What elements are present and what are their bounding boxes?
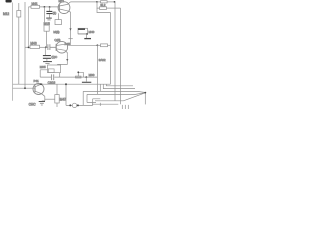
wire from node to rail — [97, 8, 111, 12]
node dot rail L3 — [28, 47, 30, 49]
connector line 1 — [95, 93, 145, 101]
rail V+ outer — [120, 8, 122, 104]
transistor Q1 — [58, 2, 70, 14]
emitter chain Q2 — [57, 54, 67, 64]
emitter tap wire — [45, 98, 55, 100]
resistor mid-right — [97, 44, 100, 46]
resistor R top1 — [97, 1, 101, 3]
node dot base Q2 — [45, 46, 47, 48]
ground — [43, 61, 52, 63]
stage2 base wire — [25, 46, 30, 48]
svg-text:M43: M43 — [30, 42, 36, 46]
rail V+ inner — [110, 13, 112, 85]
staircase wire 3 — [93, 99, 101, 106]
wire rail mid — [43, 7, 45, 25]
svg-text:M41: M41 — [32, 2, 38, 6]
fuse box inline — [76, 76, 82, 78]
collector wire top — [71, 1, 98, 3]
wire rail V1 — [12, 3, 14, 101]
emitter gnd cap — [42, 96, 45, 101]
rail V+ mid — [114, 2, 116, 101]
RC bottom loop — [40, 70, 47, 77]
corner wire D — [106, 84, 133, 86]
transistor Q2 — [56, 41, 68, 53]
bus wire — [13, 83, 111, 85]
resistor R47 — [56, 84, 58, 94]
capacitor C902 — [52, 74, 54, 80]
corner wire A — [87, 93, 145, 95]
node dot — [49, 6, 51, 8]
bottom wire with lamp — [65, 84, 67, 105]
lamp circle — [72, 103, 76, 107]
node apex — [144, 92, 146, 94]
ground — [46, 17, 52, 19]
connector line 2 — [92, 103, 118, 105]
capacitor C1 shunt — [49, 7, 51, 11]
cap to bus — [85, 77, 87, 82]
svg-text:M40: M40 — [89, 30, 95, 34]
svg-text:M12: M12 — [3, 12, 9, 16]
transistor Q3 — [33, 84, 44, 95]
box M05 — [48, 65, 61, 73]
emitter rail Q1 — [70, 12, 72, 45]
svg-text:M05: M05 — [40, 65, 46, 69]
svg-text:P41: P41 — [34, 79, 40, 83]
svg-text:(1): (1) — [53, 11, 57, 15]
bypass loop — [78, 72, 83, 77]
resistor M43 — [30, 45, 40, 48]
arrow emitter Q1 — [69, 28, 71, 31]
node dot — [114, 1, 116, 3]
connector blob top-left — [6, 0, 12, 3]
staircase wire 2 — [87, 94, 96, 102]
staircase wire 1 — [82, 91, 84, 105]
box crystal — [57, 13, 59, 19]
tick bar — [68, 38, 72, 40]
svg-text:Q(4): Q(4) — [54, 38, 60, 42]
svg-text:CHC: CHC — [29, 102, 37, 106]
stage1 base wire — [29, 6, 60, 8]
capacitor series — [46, 44, 56, 50]
wire — [40, 76, 97, 78]
rail from collector node — [96, 45, 98, 94]
resistor R-left M12 — [18, 3, 20, 11]
svg-text:M11: M11 — [59, 0, 65, 3]
wire rail L2 — [24, 2, 26, 88]
connector ticks — [122, 105, 128, 109]
corner wire C — [103, 84, 135, 88]
svg-text:M00: M00 — [89, 73, 95, 77]
shunt cap stage2 — [44, 47, 46, 55]
wire apex drop — [144, 93, 146, 105]
base wire Q3 — [13, 87, 35, 89]
svg-text:(1)C: (1)C — [51, 55, 58, 59]
junction tick — [99, 103, 101, 106]
svg-text:3A02: 3A02 — [99, 58, 106, 62]
wire rail L3 — [28, 7, 30, 48]
node dot — [96, 1, 98, 3]
resistor R top2 — [97, 2, 100, 8]
node dot — [44, 6, 46, 8]
svg-text:M(5): M(5) — [53, 30, 59, 34]
corner wire B — [83, 84, 145, 92]
collector wire stage2 — [68, 44, 97, 46]
resistor M41 — [31, 5, 40, 8]
box small mid — [78, 28, 88, 34]
svg-text:M47: M47 — [60, 98, 66, 102]
